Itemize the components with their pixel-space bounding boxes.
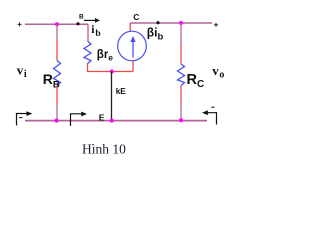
wire bre vertical upper (87, 24, 89, 41)
resistor RB (54, 61, 61, 86)
wire current source top stem (129, 23, 131, 32)
node B black dot (76, 22, 79, 25)
wire RC vertical upper (180, 23, 182, 45)
wire bottom rail (25, 120, 207, 122)
node RC top junction (179, 21, 183, 25)
svg-text:E: E (99, 112, 105, 122)
minus-arrow symbol bottom-right (202, 107, 217, 124)
arrow ib current (84, 18, 100, 23)
wire RB vertical to resistor (56, 40, 58, 61)
svg-text:B: B (79, 14, 84, 21)
arrow symbol bottom-middle (71, 112, 88, 126)
node C black dot (156, 21, 159, 24)
svg-text:C: C (133, 12, 139, 22)
wire RB bottom (56, 86, 58, 106)
wire RC bottom (180, 86, 182, 103)
plus terminal top-right (214, 23, 218, 27)
resistor RC (178, 64, 185, 86)
plus terminal top-left (18, 22, 22, 26)
wire top-left horizontal (25, 23, 88, 25)
current source circle (118, 31, 147, 61)
wire kE vertical black (111, 72, 113, 121)
wire bre bottom to emitter bus (88, 64, 134, 72)
wire RB vertical upper (56, 24, 58, 40)
node kE bottom (110, 119, 114, 123)
node RB bottom (55, 119, 59, 123)
wire current source bottom stem (132, 61, 134, 72)
svg-text:kE: kE (116, 86, 127, 96)
wire top-right horizontal (130, 22, 212, 24)
resistor bre (84, 41, 91, 64)
node top-left junction (55, 22, 59, 26)
node RC bottom (179, 118, 183, 122)
node emitter junction (110, 70, 114, 74)
minus-arrow symbol bottom-left (17, 111, 33, 125)
svg-text:Hình 10: Hình 10 (82, 142, 126, 157)
current source arrow (130, 36, 135, 58)
